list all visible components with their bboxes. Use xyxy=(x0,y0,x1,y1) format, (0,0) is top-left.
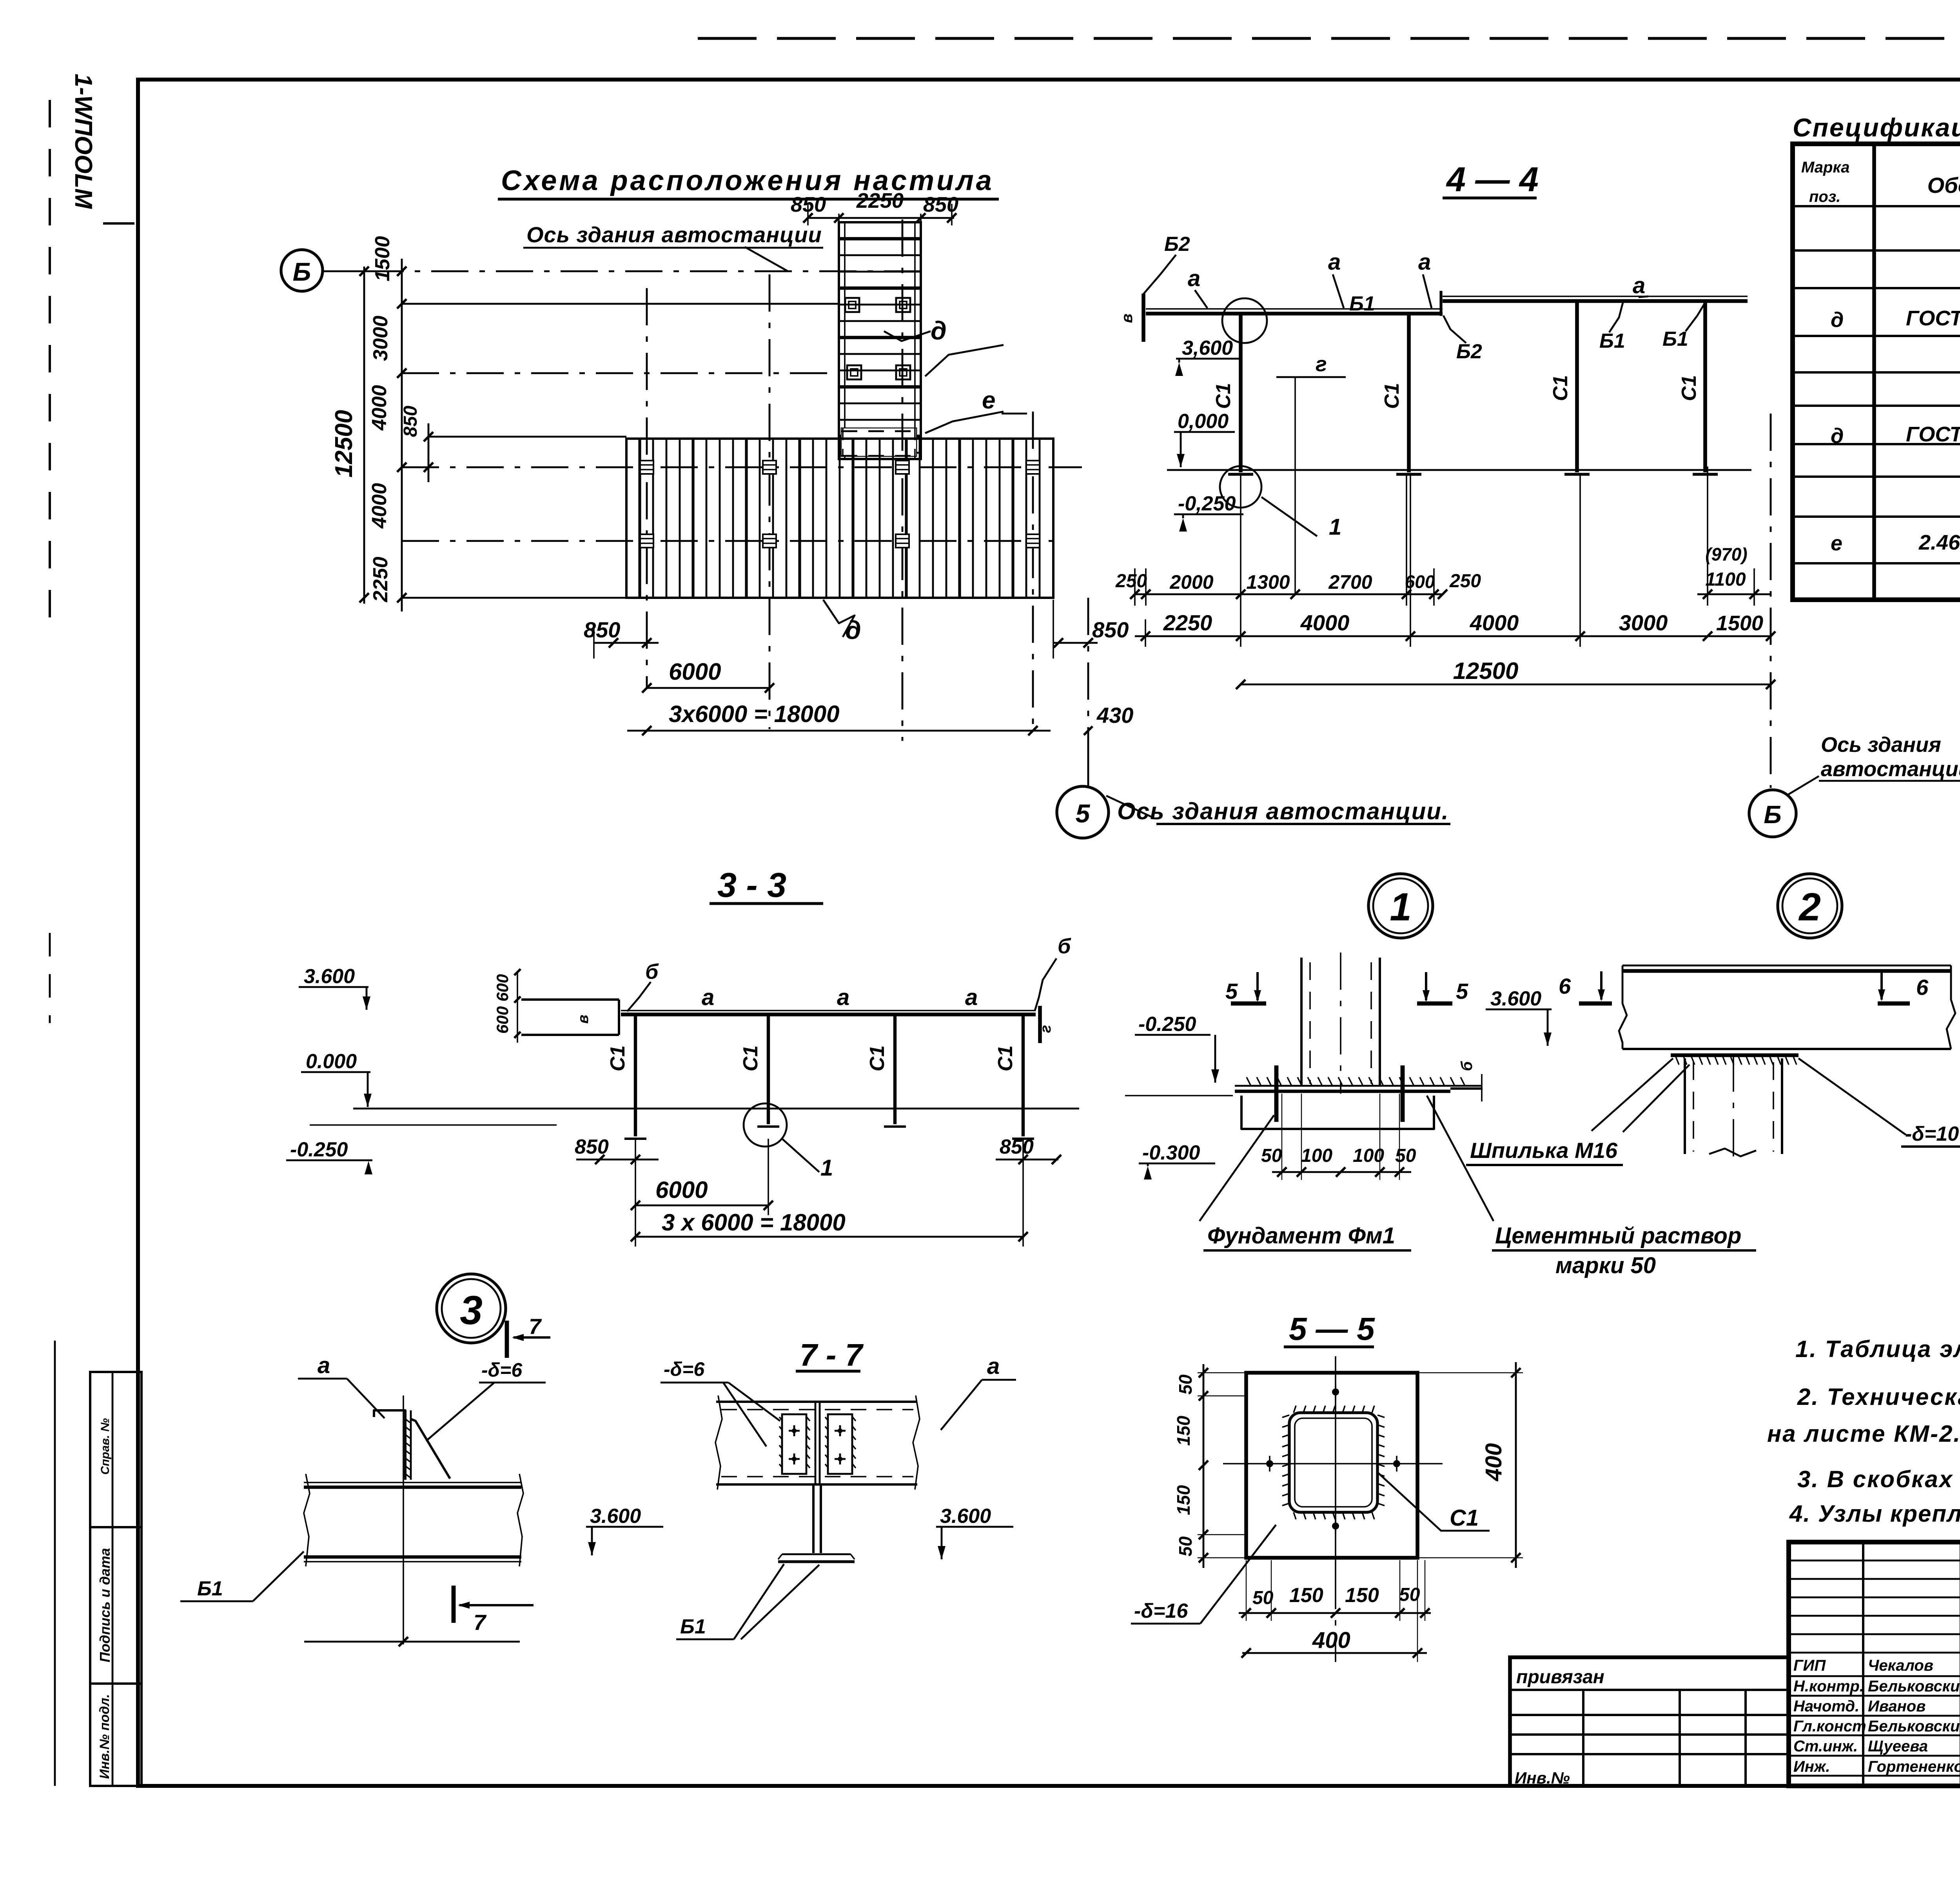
svg-text:а: а xyxy=(987,1354,1000,1379)
svg-text:2000: 2000 xyxy=(1169,571,1213,593)
svg-text:1100: 1100 xyxy=(1705,569,1746,590)
svg-text:4. Узлы крепления настила даны: 4. Узлы крепления настила даны в серии 2… xyxy=(1789,1501,1960,1527)
svg-text:250: 250 xyxy=(1449,571,1481,592)
svg-text:1: 1 xyxy=(1390,885,1412,929)
svg-text:-δ=6: -δ=6 xyxy=(664,1358,705,1380)
svg-text:б: б xyxy=(1458,1061,1475,1071)
svg-text:2250: 2250 xyxy=(856,189,904,212)
svg-text:б: б xyxy=(1058,934,1071,958)
svg-text:привязан: привязан xyxy=(1516,1667,1604,1688)
svg-text:1: 1 xyxy=(1329,514,1341,540)
svg-text:50: 50 xyxy=(1395,1145,1416,1166)
svg-text:7 - 7: 7 - 7 xyxy=(800,1337,864,1372)
svg-text:2.460-11: 2.460-11 xyxy=(1918,531,1960,554)
svg-text:Начотд.: Начотд. xyxy=(1793,1698,1859,1715)
svg-text:600: 600 xyxy=(493,974,512,1002)
svg-text:50: 50 xyxy=(1252,1588,1274,1608)
svg-text:е: е xyxy=(1831,532,1842,555)
svg-text:Инж.: Инж. xyxy=(1793,1758,1830,1775)
svg-text:6: 6 xyxy=(1559,974,1571,998)
svg-text:12500: 12500 xyxy=(1453,658,1519,684)
svg-text:Б1: Б1 xyxy=(1662,328,1688,350)
svg-text:4000: 4000 xyxy=(368,385,391,431)
svg-text:0.000: 0.000 xyxy=(306,1050,357,1073)
svg-text:д: д xyxy=(931,316,947,345)
svg-text:2. Техническая спецификация м: 2. Техническая спецификация металла поме… xyxy=(1797,1384,1960,1410)
svg-text:850: 850 xyxy=(584,617,620,642)
svg-text:а: а xyxy=(1418,249,1431,275)
svg-text:2700: 2700 xyxy=(1328,571,1372,593)
svg-text:Ось здания автостанции.: Ось здания автостанции. xyxy=(1117,798,1449,824)
svg-text:а: а xyxy=(965,985,978,1010)
svg-text:а: а xyxy=(1328,249,1341,275)
svg-text:Ось здания автостанции: Ось здания автостанции xyxy=(526,222,822,247)
svg-text:50: 50 xyxy=(1399,1584,1420,1605)
svg-text:в: в xyxy=(575,1015,592,1024)
svg-text:Бельковский: Бельковский xyxy=(1868,1718,1960,1735)
svg-text:Н.контр.: Н.контр. xyxy=(1793,1678,1864,1695)
svg-text:4000: 4000 xyxy=(368,483,391,529)
svg-text:3000: 3000 xyxy=(1619,610,1668,635)
svg-text:430: 430 xyxy=(1096,703,1133,728)
svg-text:ГИП: ГИП xyxy=(1793,1657,1826,1674)
svg-text:ГОСТ 24045-80: ГОСТ 24045-80 xyxy=(1906,423,1960,446)
svg-text:д: д xyxy=(1831,308,1844,332)
svg-text:Обозначение: Обозначение xyxy=(1927,173,1960,198)
svg-text:4 — 4: 4 — 4 xyxy=(1446,160,1539,199)
svg-text:3х6000 = 18000: 3х6000 = 18000 xyxy=(669,701,839,727)
svg-text:1500: 1500 xyxy=(371,236,394,281)
svg-text:Б1: Б1 xyxy=(1349,292,1375,315)
svg-text:400: 400 xyxy=(1481,1443,1506,1482)
svg-text:-0.250: -0.250 xyxy=(290,1138,348,1161)
svg-text:5: 5 xyxy=(1076,799,1091,828)
svg-text:6000: 6000 xyxy=(669,659,721,685)
svg-text:3.600: 3.600 xyxy=(304,965,355,988)
svg-text:3 х 6000 = 18000: 3 х 6000 = 18000 xyxy=(662,1209,846,1236)
svg-text:а: а xyxy=(1188,266,1200,291)
svg-text:е: е xyxy=(982,387,995,414)
svg-text:С1: С1 xyxy=(866,1045,889,1071)
svg-text:С1: С1 xyxy=(1381,383,1403,409)
svg-text:3.600: 3.600 xyxy=(1490,987,1541,1010)
svg-text:в: в xyxy=(1118,314,1136,323)
svg-text:ГОСТ 24045-80: ГОСТ 24045-80 xyxy=(1906,307,1960,330)
svg-text:6: 6 xyxy=(1916,975,1929,1000)
svg-text:С1: С1 xyxy=(1450,1505,1479,1531)
svg-text:С1: С1 xyxy=(1212,383,1235,409)
svg-text:а: а xyxy=(1633,273,1645,298)
svg-text:5: 5 xyxy=(1225,979,1238,1003)
svg-text:С1: С1 xyxy=(1549,375,1572,401)
svg-text:Б: Б xyxy=(293,257,311,286)
svg-text:150: 150 xyxy=(1345,1584,1379,1607)
svg-text:Справ. №: Справ. № xyxy=(99,1418,112,1475)
svg-text:850: 850 xyxy=(1000,1136,1034,1158)
svg-text:Ось здания: Ось здания xyxy=(1821,733,1941,757)
svg-text:4000: 4000 xyxy=(1470,610,1519,635)
svg-text:150: 150 xyxy=(1289,1584,1323,1607)
svg-text:(970): (970) xyxy=(1705,544,1747,564)
svg-text:1. Таблица элементов дана на л: 1. Таблица элементов дана на листе КМ-3. xyxy=(1795,1336,1960,1362)
svg-text:Б1: Б1 xyxy=(197,1577,223,1600)
svg-text:Щуеева: Щуеева xyxy=(1868,1738,1928,1755)
svg-text:1500: 1500 xyxy=(1716,611,1763,635)
svg-text:2250: 2250 xyxy=(1163,610,1212,635)
svg-text:г: г xyxy=(1316,352,1327,376)
svg-text:0,000: 0,000 xyxy=(1178,410,1229,433)
svg-text:-δ=16: -δ=16 xyxy=(1134,1600,1188,1622)
svg-text:Гортененко: Гортененко xyxy=(1868,1758,1960,1775)
svg-text:1-WПООLМ: 1-WПООLМ xyxy=(70,74,97,209)
svg-text:7: 7 xyxy=(474,1610,487,1635)
svg-text:Инв.№: Инв.№ xyxy=(1515,1769,1570,1787)
svg-text:Схема расположения настила: Схема расположения настила xyxy=(501,165,994,196)
svg-text:а: а xyxy=(837,985,849,1010)
svg-text:2250: 2250 xyxy=(369,557,392,602)
svg-text:850: 850 xyxy=(400,406,421,437)
svg-text:-0.300: -0.300 xyxy=(1142,1141,1200,1164)
svg-text:Марка: Марка xyxy=(1801,159,1850,176)
svg-text:3. В скобках даны размеры для: 3. В скобках даны размеры для t= -40°С. xyxy=(1797,1466,1960,1492)
svg-text:5 — 5: 5 — 5 xyxy=(1289,1311,1375,1347)
svg-text:400: 400 xyxy=(1312,1628,1350,1653)
svg-text:3 - 3: 3 - 3 xyxy=(717,866,786,904)
svg-text:850: 850 xyxy=(923,193,958,216)
svg-text:Ст.инж.: Ст.инж. xyxy=(1793,1738,1858,1755)
svg-text:3,600: 3,600 xyxy=(1182,337,1233,359)
svg-text:марки 50: марки 50 xyxy=(1555,1253,1656,1278)
svg-text:Б: Б xyxy=(1764,800,1781,829)
svg-text:С1: С1 xyxy=(994,1045,1017,1071)
svg-text:3.600: 3.600 xyxy=(940,1505,991,1528)
svg-text:150: 150 xyxy=(1173,1485,1194,1515)
svg-text:С1: С1 xyxy=(606,1045,629,1071)
svg-text:50: 50 xyxy=(1261,1145,1282,1166)
svg-text:С1: С1 xyxy=(739,1045,762,1071)
svg-text:50: 50 xyxy=(1175,1536,1196,1557)
svg-text:1300: 1300 xyxy=(1246,571,1290,593)
svg-text:Цементный раствор: Цементный раствор xyxy=(1495,1223,1741,1248)
svg-text:Инв.№ подл.: Инв.№ подл. xyxy=(97,1694,112,1779)
svg-text:Фундамент Фм1: Фундамент Фм1 xyxy=(1207,1223,1395,1248)
svg-text:Подпись и дата: Подпись и дата xyxy=(97,1548,113,1662)
svg-text:Гл.конст: Гл.конст xyxy=(1793,1718,1866,1735)
svg-text:2: 2 xyxy=(1798,885,1821,929)
svg-text:г: г xyxy=(1038,1025,1054,1033)
svg-text:250: 250 xyxy=(1115,571,1147,592)
svg-text:4000: 4000 xyxy=(1300,610,1350,635)
svg-text:1: 1 xyxy=(820,1155,833,1181)
svg-text:-δ=10: -δ=10 xyxy=(1905,1123,1959,1145)
svg-text:7: 7 xyxy=(529,1314,542,1339)
svg-text:б: б xyxy=(645,960,659,983)
svg-text:а: а xyxy=(702,985,714,1010)
svg-text:а: а xyxy=(318,1353,330,1378)
svg-text:12500: 12500 xyxy=(330,410,358,477)
svg-text:850: 850 xyxy=(1092,617,1129,642)
svg-text:автостанции: автостанции xyxy=(1821,757,1960,781)
svg-text:3: 3 xyxy=(460,1288,483,1333)
svg-text:Иванов: Иванов xyxy=(1868,1698,1926,1715)
svg-text:150: 150 xyxy=(1173,1415,1194,1446)
svg-text:Спецификация к схеме располож: Спецификация к схеме расположения настил… xyxy=(1793,113,1960,142)
svg-text:600: 600 xyxy=(493,1006,512,1034)
svg-text:Б1: Б1 xyxy=(680,1615,706,1638)
svg-text:поз.: поз. xyxy=(1809,188,1840,205)
svg-text:3000: 3000 xyxy=(369,316,392,361)
svg-text:50: 50 xyxy=(1175,1374,1196,1395)
svg-text:5: 5 xyxy=(1456,979,1468,1003)
svg-text:-0,250: -0,250 xyxy=(1178,492,1236,515)
svg-text:Бельковский: Бельковский xyxy=(1868,1678,1960,1695)
svg-text:Шпилька М16: Шпилька М16 xyxy=(1470,1138,1618,1163)
svg-text:Б1: Б1 xyxy=(1599,330,1625,352)
svg-text:100: 100 xyxy=(1301,1145,1332,1166)
svg-text:6000: 6000 xyxy=(655,1177,708,1203)
svg-text:Чекалов: Чекалов xyxy=(1868,1657,1933,1674)
svg-text:600: 600 xyxy=(1405,572,1435,592)
svg-text:д: д xyxy=(1831,424,1844,448)
svg-text:на листе КМ-2.: на листе КМ-2. xyxy=(1767,1421,1960,1447)
svg-text:Б2: Б2 xyxy=(1456,340,1482,363)
svg-text:-δ=6: -δ=6 xyxy=(481,1359,523,1381)
svg-text:Б2: Б2 xyxy=(1164,233,1190,256)
svg-text:С1: С1 xyxy=(1678,375,1700,401)
svg-text:-0.250: -0.250 xyxy=(1138,1013,1196,1036)
svg-text:3.600: 3.600 xyxy=(590,1505,641,1528)
